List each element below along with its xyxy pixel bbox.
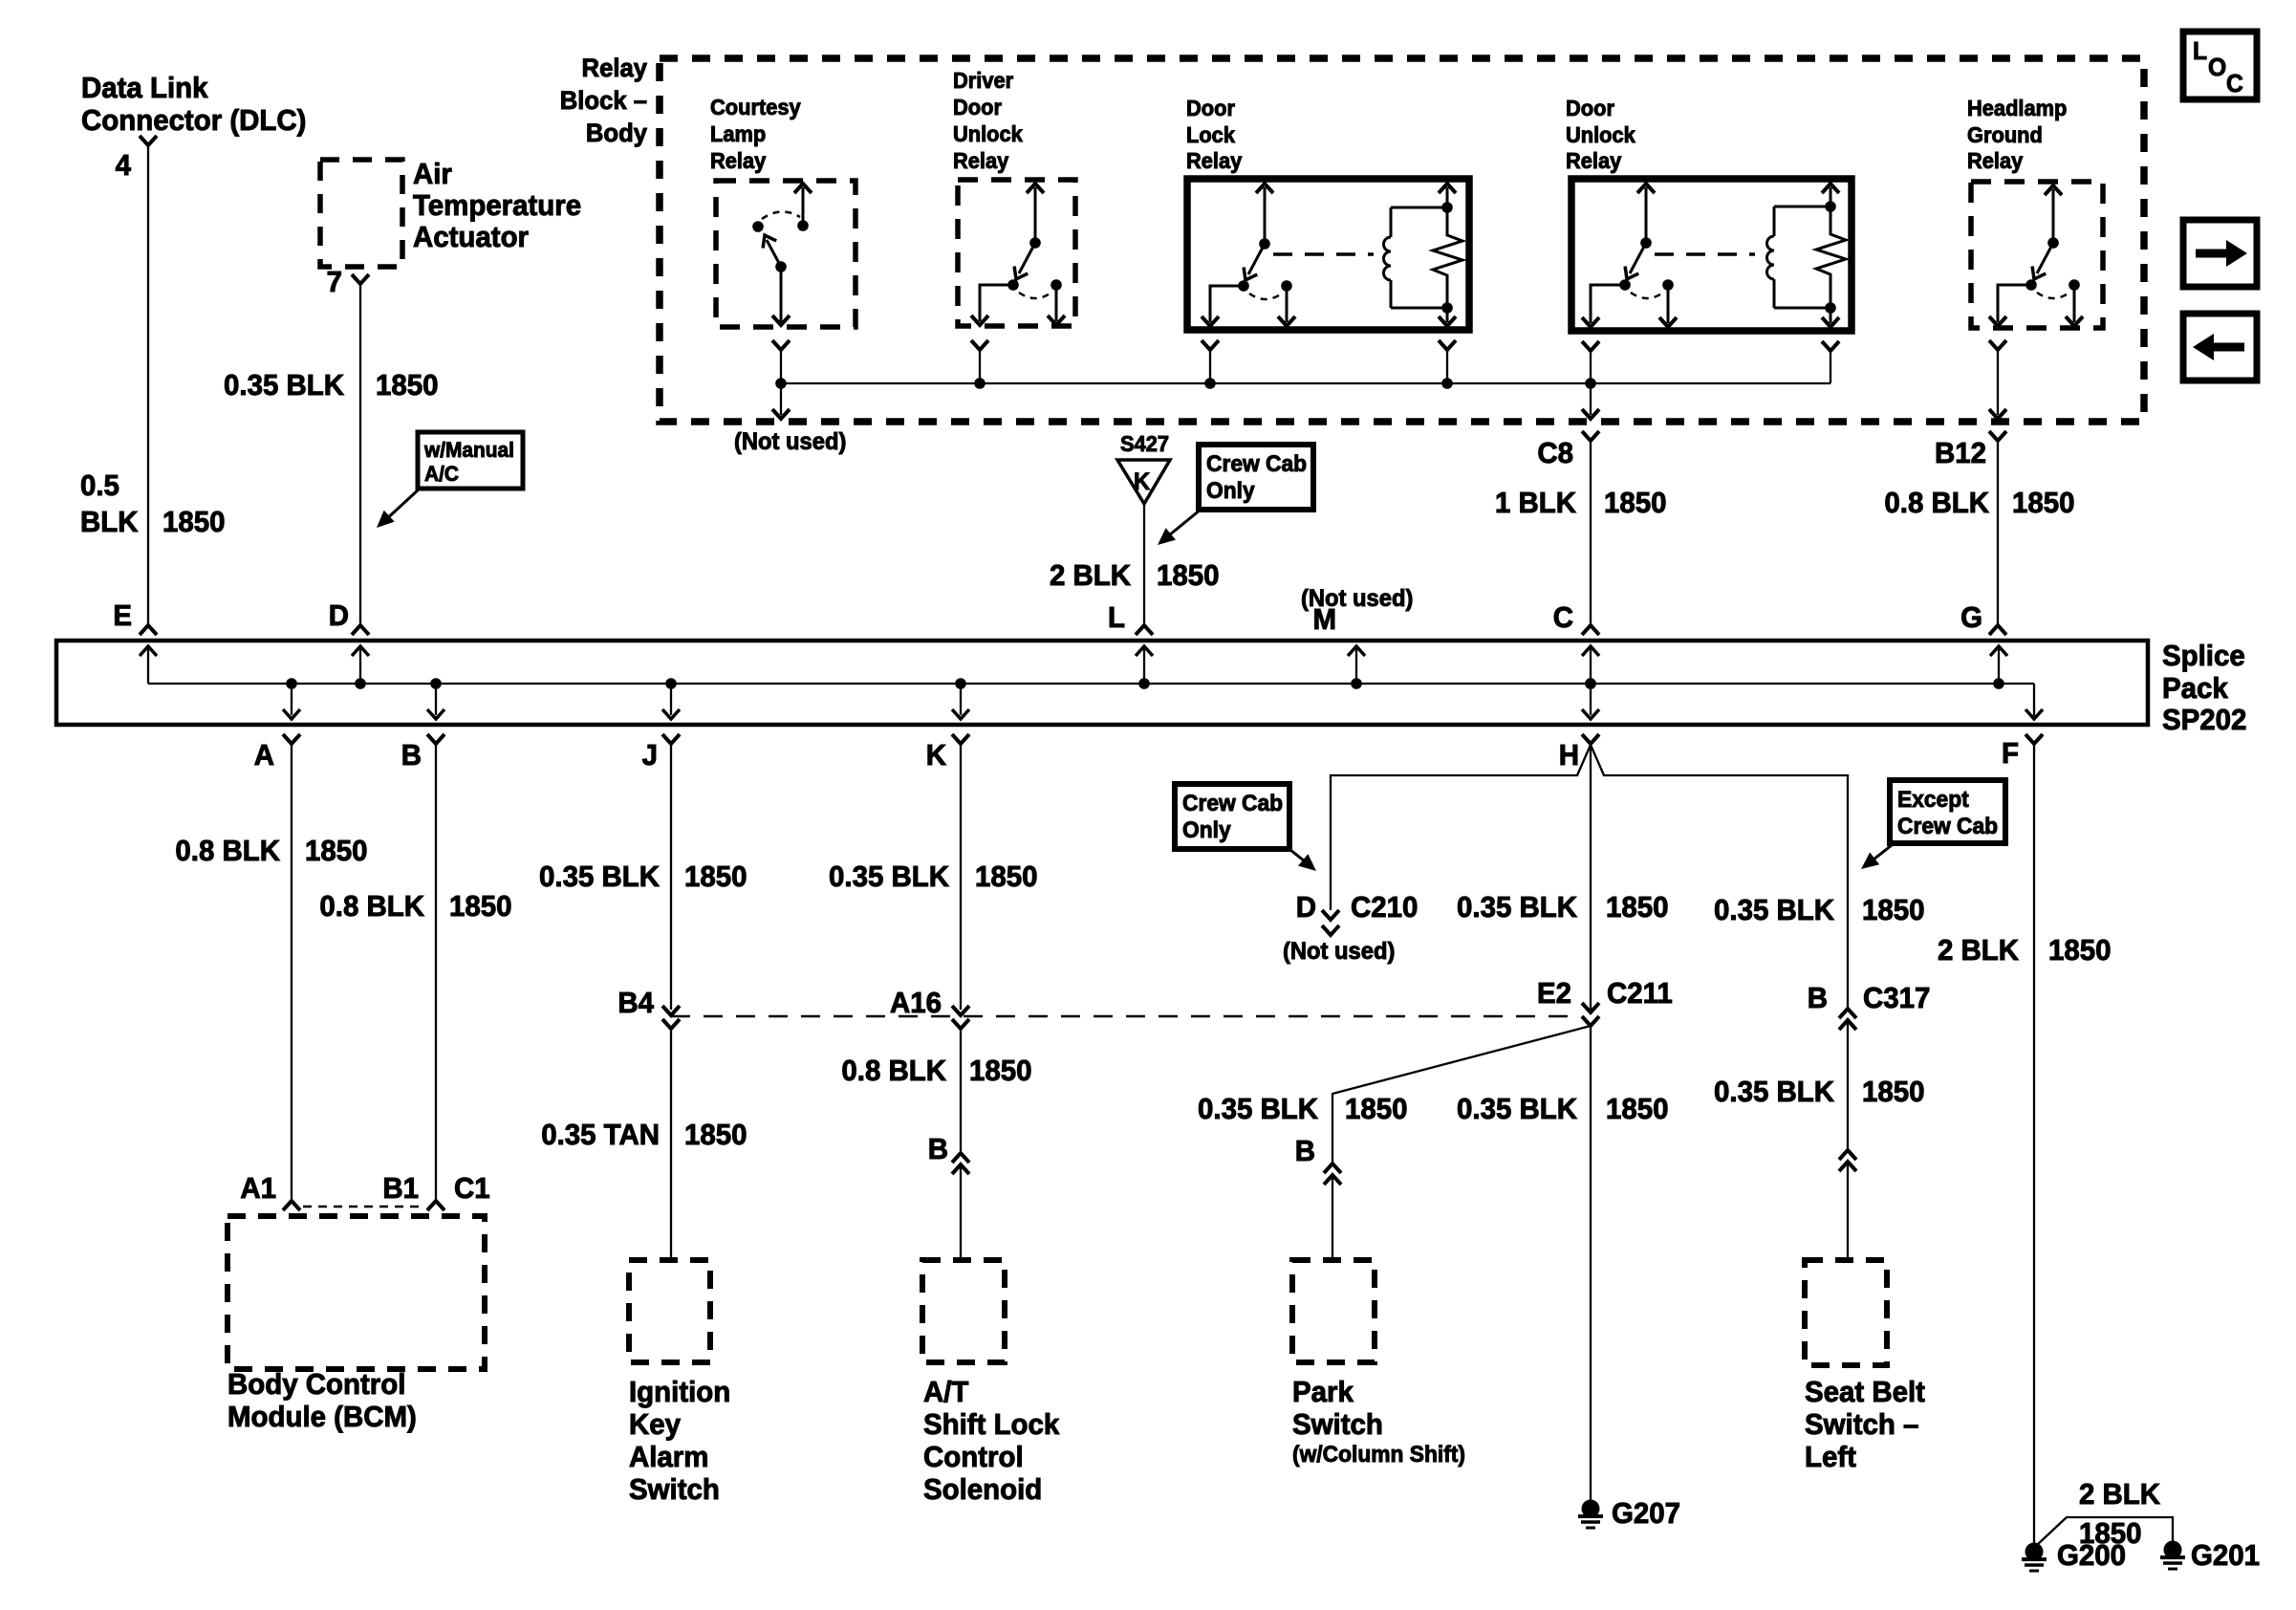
splice exit connector A [283, 734, 300, 1201]
connector chevron at splice entry D [352, 625, 369, 635]
door unlock relay right contact pin [1659, 279, 1677, 327]
svg-text:0.5: 0.5 [80, 469, 119, 502]
svg-text:0.35 BLK: 0.35 BLK [1714, 894, 1834, 926]
door unlock relay pin arrow [1637, 184, 1655, 249]
svg-text:1850: 1850 [2079, 1517, 2141, 1550]
svg-text:(Not used): (Not used) [734, 428, 846, 455]
svg-text:S427: S427 [1120, 431, 1169, 456]
door unlock relay connector Y right [1822, 341, 1839, 383]
svg-text:(w/Column Shift): (w/Column Shift) [1292, 1441, 1465, 1467]
door lock relay solid box [1187, 179, 1469, 330]
splice internal arrow D [352, 646, 369, 689]
svg-text:0.35 BLK: 0.35 BLK [1457, 1093, 1577, 1125]
svg-text:1850: 1850 [1606, 1093, 1668, 1125]
svg-text:L: L [1108, 601, 1125, 634]
svg-text:Courtesy: Courtesy [710, 95, 801, 120]
svg-text:M: M [1312, 603, 1336, 636]
svg-text:Relay: Relay [1566, 148, 1622, 173]
wire label 0.8 BLK 1850 (K lower) [841, 1055, 1031, 1087]
connector chevron at BCM B1 [427, 1201, 444, 1210]
terminal label B12 [1935, 437, 1986, 469]
connector chevron at splice entry E [140, 625, 157, 635]
crew cab only pointer arrow 1 [1153, 510, 1201, 551]
terminal label B4 [617, 987, 654, 1019]
svg-text:F: F [2002, 737, 2019, 770]
C317 connector chevrons [1839, 1009, 1856, 1150]
terminal label D (C210) [1296, 891, 1316, 924]
svg-text:Only: Only [1206, 477, 1255, 503]
svg-text:Splice: Splice [2162, 640, 2245, 672]
svg-text:Alarm: Alarm [629, 1441, 708, 1473]
headlamp ground relay armature [2025, 243, 2053, 291]
svg-text:Relay: Relay [1967, 148, 2024, 173]
crew cab only pointer arrow 2 [1290, 850, 1321, 877]
svg-text:O: O [2208, 54, 2226, 81]
splice pack internal bus [148, 684, 2034, 716]
seat belt switch label [1805, 1376, 1925, 1473]
svg-text:Switch: Switch [629, 1473, 720, 1506]
connector chevron at splice entry G [1989, 625, 2006, 635]
splice internal arrow A [283, 678, 300, 719]
H branch fan wires [1331, 745, 1848, 1011]
splice terminal label H [1559, 739, 1579, 772]
svg-text:G: G [1960, 601, 1982, 634]
svg-text:Module (BCM): Module (BCM) [227, 1401, 417, 1433]
svg-text:1850: 1850 [969, 1055, 1031, 1087]
door lock relay right pin arrow [1439, 184, 1456, 326]
svg-text:Door: Door [1566, 96, 1614, 120]
splice pack SP202 box [56, 641, 2148, 725]
svg-text:Block –: Block – [560, 85, 647, 115]
svg-text:Body Control: Body Control [227, 1368, 405, 1401]
splice internal arrow B [427, 678, 444, 719]
Data Link Connector (DLC) label [81, 72, 306, 137]
terminal label C211 [1607, 977, 1673, 1010]
svg-text:1850: 1850 [1345, 1093, 1407, 1125]
wire E from DLC to splice pack [147, 145, 149, 625]
svg-text:0.8 BLK: 0.8 BLK [1884, 487, 1989, 519]
2 BLK 1850 bracket [2037, 1517, 2173, 1545]
splice terminal label A [254, 739, 274, 772]
svg-text:Only: Only [1182, 816, 1231, 842]
C211 connector dashed line [671, 1015, 1577, 1018]
svg-text:1 BLK: 1 BLK [1495, 487, 1576, 519]
wire label 1 BLK 1850 (C) [1495, 487, 1667, 519]
svg-text:Park: Park [1292, 1376, 1354, 1408]
driver door unlock relay contact arc [1019, 293, 1051, 298]
svg-text:B: B [1808, 982, 1828, 1014]
svg-text:1850: 1850 [1604, 487, 1666, 519]
splice internal arrow L [1136, 646, 1153, 689]
svg-text:2 BLK: 2 BLK [1050, 559, 1131, 592]
svg-text:C211: C211 [1607, 977, 1673, 1010]
courtesy lamp relay contact arc [762, 211, 800, 219]
svg-text:0.35 BLK: 0.35 BLK [1714, 1076, 1834, 1108]
svg-text:B: B [928, 1133, 948, 1165]
pin label 4 [116, 149, 132, 182]
svg-text:Unlock: Unlock [1566, 122, 1635, 147]
door unlock relay label [1566, 96, 1635, 173]
wire label 0.8 BLK 1850 (B) [319, 890, 511, 923]
svg-text:7: 7 [327, 266, 342, 298]
svg-text:C210: C210 [1351, 891, 1418, 924]
svg-text:E: E [113, 599, 132, 632]
splice terminal label K [926, 739, 946, 772]
svg-text:Data Link: Data Link [81, 72, 208, 104]
door unlock relay armature [1619, 243, 1646, 291]
driver door unlock relay connector Y [971, 340, 988, 383]
wire label 0.35 BLK 1850 (seat belt) [1714, 1076, 1924, 1108]
svg-text:C317: C317 [1863, 982, 1930, 1014]
door lock relay connector Y left [1202, 340, 1219, 383]
relay block internal bus wire [781, 382, 1830, 384]
ground G200 [2022, 1543, 2047, 1572]
door lock relay left pin [1202, 286, 1244, 326]
svg-text:1850: 1850 [1862, 894, 1924, 926]
door lock relay coil top rail [1391, 202, 1453, 213]
svg-text:B: B [401, 739, 422, 772]
svg-text:Left: Left [1805, 1441, 1856, 1473]
terminal label E2 [1537, 977, 1571, 1010]
svg-text:1850: 1850 [684, 860, 747, 893]
wire label 0.35 BLK 1850 (D) [224, 369, 438, 402]
svg-text:Body: Body [586, 118, 647, 147]
A/T inline connector chevrons [952, 1153, 969, 1260]
air temperature actuator label [413, 158, 581, 253]
door unlock relay right pin arrow [1822, 184, 1839, 327]
wire label 2 BLK 1850 (F) [1938, 934, 2112, 967]
svg-text:Headlamp: Headlamp [1967, 96, 2067, 120]
splice internal arrow F [2025, 709, 2043, 719]
door lock relay coil link dashed [1273, 252, 1374, 256]
svg-text:Control: Control [923, 1441, 1024, 1473]
svg-text:0.35 TAN: 0.35 TAN [541, 1119, 660, 1151]
connector chevron at BCM A1 [283, 1201, 300, 1210]
svg-text:Lock: Lock [1186, 122, 1235, 147]
splice pack label [2162, 640, 2246, 736]
svg-text:Door: Door [953, 95, 1002, 120]
connector A16 chevrons [952, 1006, 969, 1151]
splice S427 symbol [1117, 460, 1170, 504]
svg-text:Key: Key [629, 1408, 681, 1441]
door lock relay connector Y right [1439, 340, 1456, 383]
terminal label C317 [1863, 982, 1930, 1014]
door unlock relay connector Y left [1582, 341, 1599, 383]
C210 stub chevrons [1322, 910, 1339, 935]
splice internal arrow J [662, 678, 680, 719]
svg-text:A/C: A/C [424, 463, 459, 487]
svg-text:SP202: SP202 [2162, 704, 2246, 736]
crew cab only callout box 1 [1199, 445, 1313, 510]
nav arrow left box [2183, 314, 2257, 381]
connector chevron at splice entry C [1582, 625, 1599, 635]
splice exit connector J [662, 734, 680, 1010]
wire label 0.8 BLK 1850 (G) [1884, 487, 2074, 519]
svg-text:Solenoid: Solenoid [923, 1473, 1042, 1506]
svg-text:Ignition: Ignition [629, 1376, 730, 1408]
svg-text:D: D [329, 599, 349, 632]
bus junction at door lock relay right [1441, 378, 1453, 389]
driver door unlock relay left pin [971, 285, 1013, 325]
door lock relay coil [1384, 207, 1391, 308]
splice terminal label D [329, 599, 349, 632]
svg-text:E2: E2 [1537, 977, 1571, 1010]
svg-text:Seat Belt: Seat Belt [1805, 1376, 1925, 1408]
splice exit connector K [952, 734, 969, 1010]
terminal label C210 [1351, 891, 1418, 924]
svg-text:C1: C1 [454, 1172, 490, 1205]
park switch label [1292, 1376, 1465, 1467]
svg-text:0.8 BLK: 0.8 BLK [175, 835, 280, 867]
svg-text:A/T: A/T [923, 1376, 969, 1408]
svg-text:0.35 BLK: 0.35 BLK [1457, 891, 1577, 924]
svg-text:BLK: BLK [80, 506, 139, 538]
svg-text:1850: 1850 [2012, 487, 2074, 519]
svg-text:Ground: Ground [1967, 122, 2043, 147]
splice internal arrow G [1990, 646, 2007, 689]
except crew cab callout box [1890, 780, 2005, 843]
svg-text:(Not used): (Not used) [1283, 938, 1395, 965]
splice terminal label L [1108, 601, 1125, 634]
svg-text:J: J [642, 739, 658, 772]
(Not used) label courtesy [734, 428, 846, 455]
svg-text:Driver: Driver [953, 68, 1013, 93]
ground G207 [1578, 1500, 1603, 1529]
body control module label [227, 1368, 417, 1433]
headlamp ground relay left pin [1989, 285, 2031, 326]
terminal label B1 [382, 1172, 419, 1205]
svg-text:Unlock: Unlock [953, 121, 1023, 146]
svg-text:B4: B4 [617, 987, 654, 1019]
door unlock relay resistor [1816, 207, 1846, 308]
A/T shift lock control solenoid label [923, 1376, 1059, 1506]
svg-text:1850: 1850 [449, 890, 511, 923]
svg-text:B1: B1 [382, 1172, 419, 1205]
wire label 2 BLK (G200/G201) [2079, 1478, 2160, 1511]
bus junction at driver door unlock relay [974, 378, 986, 389]
wire D from actuator to splice pack [359, 284, 361, 625]
door lock relay right contact pin [1278, 280, 1295, 326]
svg-text:1850: 1850 [376, 369, 438, 402]
pin label 7 [327, 266, 342, 298]
splice exit connector H [1582, 734, 1599, 744]
courtesy lamp relay pin 30 arrow [794, 184, 812, 231]
wire label 1850 (G200/G201) [2079, 1517, 2141, 1550]
body control module dashed box [227, 1216, 485, 1369]
svg-text:0.35 BLK: 0.35 BLK [539, 860, 660, 893]
svg-text:Connector (DLC): Connector (DLC) [81, 104, 306, 137]
ground label G201 [2191, 1539, 2260, 1572]
driver door unlock relay armature [1007, 243, 1035, 291]
bus junction at courtesy relay [775, 378, 787, 389]
door unlock relay coil [1767, 207, 1775, 308]
svg-text:1850: 1850 [305, 835, 367, 867]
terminal label B (C317) [1808, 982, 1828, 1014]
relay block - body dashed outline [660, 58, 2144, 422]
headlamp ground relay label [1967, 96, 2067, 173]
svg-text:Relay: Relay [710, 148, 767, 173]
svg-text:0.8 BLK: 0.8 BLK [319, 890, 424, 923]
splice terminal label F [2002, 737, 2019, 770]
splice internal arrow E [140, 646, 157, 684]
crew cab only callout box 2 [1175, 784, 1289, 849]
w/Manual A/C pointer arrow [371, 489, 420, 533]
ground G201 [2160, 1541, 2185, 1570]
courtesy lamp relay lower pin arrow [772, 267, 790, 325]
svg-text:B: B [1295, 1135, 1315, 1167]
door unlock relay left pin [1582, 285, 1625, 327]
svg-text:1850: 1850 [1606, 891, 1668, 924]
svg-text:2 BLK: 2 BLK [1938, 934, 2019, 967]
splice exit connector F [2025, 734, 2043, 1547]
terminal label B (A/T) [928, 1133, 948, 1165]
headlamp ground relay connector Y [1989, 340, 2006, 415]
svg-text:2 BLK: 2 BLK [2079, 1478, 2160, 1511]
wire label 0.35 BLK 1850 (J) [539, 860, 747, 893]
terminal label B (park) [1295, 1135, 1315, 1167]
terminal label C8 [1537, 437, 1573, 469]
door unlock relay coil bottom rail [1774, 302, 1836, 314]
door unlock relay coil link dashed [1655, 252, 1755, 256]
svg-text:G207: G207 [1612, 1497, 1680, 1530]
svg-text:0.8 BLK: 0.8 BLK [841, 1055, 946, 1087]
courtesy lamp relay fixed contact [752, 221, 764, 232]
svg-text:Switch –: Switch – [1805, 1408, 1918, 1441]
wire label 0.8 BLK 1850 (A) [175, 835, 367, 867]
svg-text:1850: 1850 [162, 506, 225, 538]
splice internal arrow M [1348, 646, 1365, 689]
svg-text:Except: Except [1897, 786, 1969, 812]
splice terminal label G [1960, 601, 1982, 634]
seat belt switch dashed box [1805, 1260, 1887, 1365]
w/Manual A/C callout box [418, 432, 523, 489]
splice internal arrow C [1582, 646, 1599, 689]
splice terminal label E [113, 599, 132, 632]
terminal label A1 [240, 1172, 276, 1205]
courtesy lamp relay armature [758, 231, 787, 272]
nav arrow right box [2183, 220, 2257, 287]
svg-text:Switch: Switch [1292, 1408, 1383, 1441]
headlamp ground relay dashed box [1971, 182, 2103, 328]
wire H below C211 [1590, 1026, 1592, 1501]
svg-text:1850: 1850 [1157, 559, 1219, 592]
park switch dashed box [1292, 1260, 1375, 1362]
splice S427 label [1120, 431, 1169, 456]
ignition key alarm switch dashed box [629, 1260, 710, 1362]
wire label 0.35 BLK 1850 (H lower) [1457, 1093, 1668, 1125]
svg-text:D: D [1296, 891, 1316, 924]
splice terminal label C [1553, 601, 1573, 634]
svg-text:G201: G201 [2191, 1539, 2260, 1572]
svg-text:C8: C8 [1537, 437, 1573, 469]
svg-text:K: K [926, 739, 946, 772]
except crew cab pointer arrow [1856, 845, 1892, 875]
wire label 0.35 BLK 1850 (K) [829, 860, 1037, 893]
svg-text:Crew Cab: Crew Cab [1182, 790, 1283, 816]
svg-text:Relay: Relay [582, 53, 648, 82]
svg-text:Relay: Relay [953, 148, 1009, 173]
wire label 0.35 BLK 1850 (H) [1457, 891, 1668, 924]
svg-text:Door: Door [1186, 96, 1235, 120]
door lock relay armature [1238, 244, 1265, 292]
headlamp ground relay contact arc [2037, 293, 2069, 298]
door lock relay contact arc [1249, 294, 1282, 299]
door lock relay label [1186, 96, 1243, 173]
svg-text:B12: B12 [1935, 437, 1986, 469]
splice terminal label B [401, 739, 422, 772]
A/T shift lock control solenoid dashed box [922, 1260, 1005, 1362]
door unlock relay coil top rail [1774, 201, 1836, 212]
svg-text:4: 4 [116, 149, 132, 182]
driver door unlock relay dashed box [958, 180, 1075, 326]
svg-text:Pack: Pack [2162, 672, 2228, 705]
splice terminal label J [642, 739, 658, 772]
splice terminal label M [1312, 603, 1336, 636]
svg-text:Crew Cab: Crew Cab [1206, 450, 1307, 476]
door lock relay pin arrow [1256, 184, 1273, 250]
diagonal wire C211 E2 to park switch [1332, 1026, 1591, 1163]
headlamp relay wire exit arrow [1989, 409, 2006, 419]
door unlock relay solid box [1571, 179, 1852, 331]
terminal label A16 [890, 987, 942, 1019]
relay block - body label [560, 53, 648, 147]
svg-text:K: K [1134, 468, 1151, 495]
svg-text:H: H [1559, 739, 1579, 772]
svg-text:1850: 1850 [684, 1119, 747, 1151]
LOC reference box [2183, 32, 2257, 99]
ground label G200 [2057, 1539, 2126, 1572]
splice internal arrow H [1582, 678, 1599, 719]
svg-text:Actuator: Actuator [413, 221, 529, 253]
svg-text:0.35 BLK: 0.35 BLK [224, 369, 344, 402]
(Not used) label C210 [1283, 938, 1395, 965]
driver door unlock relay right contact pin [1048, 279, 1065, 325]
driver door unlock relay label [953, 68, 1023, 173]
air temperature actuator dashed box [320, 160, 402, 267]
courtesy lamp relay connector Y [772, 340, 790, 383]
svg-text:C: C [2226, 70, 2243, 98]
(Not used) label M [1301, 585, 1413, 612]
connector Y below air temperature actuator [352, 274, 369, 284]
svg-text:1850: 1850 [2048, 934, 2111, 967]
svg-text:Shift Lock: Shift Lock [923, 1408, 1059, 1441]
courtesy lamp relay dashed box [716, 181, 856, 327]
wire label 0.35 BLK 1850 (park) [1198, 1093, 1407, 1125]
connector E2 chevrons [1582, 1003, 1599, 1026]
wire label 0.5 BLK 1850 (E) [80, 469, 225, 538]
door lock relay coil bottom rail [1391, 302, 1453, 314]
BCM connector dashed link [303, 1206, 424, 1208]
bus junction at door unlock relay left [1585, 378, 1596, 389]
svg-text:1850: 1850 [975, 860, 1037, 893]
driver door unlock relay pin arrow [1027, 184, 1044, 249]
svg-text:Air: Air [413, 158, 452, 190]
wire label 2 BLK 1850 (L) [1050, 559, 1220, 592]
svg-text:C: C [1553, 601, 1573, 634]
ignition key alarm switch label [629, 1376, 730, 1506]
svg-text:Lamp: Lamp [710, 121, 766, 146]
svg-text:0.35 BLK: 0.35 BLK [1198, 1093, 1318, 1125]
svg-text:Relay: Relay [1186, 148, 1243, 173]
seat belt inline connector chevrons [1839, 1150, 1856, 1260]
headlamp ground relay right contact pin [2066, 279, 2083, 326]
wire label 0.35 BLK 1850 (C317) [1714, 894, 1924, 926]
ground label G207 [1612, 1497, 1680, 1530]
wire C8 from door unlock relay to splice [1582, 383, 1599, 625]
svg-text:A: A [254, 739, 274, 772]
terminal label C1 [454, 1172, 490, 1205]
bus junction at door lock relay left [1204, 378, 1216, 389]
